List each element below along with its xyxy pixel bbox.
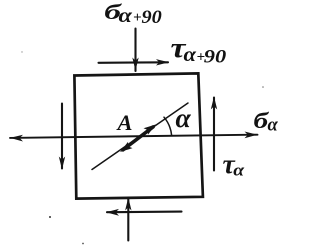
square element [74, 73, 203, 198]
svg-text:90: 90 [142, 6, 162, 27]
arrowhead sigma bottom up [125, 198, 131, 211]
label sigma alpha [254, 108, 279, 135]
arrowhead incline lower [120, 142, 133, 152]
arrowhead tau alpha+90 [156, 59, 169, 65]
speck noise [49, 216, 51, 218]
wire inclined section line [92, 103, 188, 170]
arrow tau alpha shaft (right, up) [213, 98, 215, 171]
arrow tau bottom shaft (left) [107, 211, 182, 214]
svg-text:+: + [133, 10, 142, 26]
arrowhead tau alpha up [211, 97, 217, 110]
svg-text:A: A [116, 110, 133, 135]
arrowhead sigma alpha+90 [132, 58, 138, 71]
arrow sigma alpha+90 shaft (top, down) [134, 29, 136, 72]
svg-text:α: α [184, 43, 198, 66]
arrowhead sigma left [10, 135, 23, 142]
arrow sigma bottom shaft (up) [127, 199, 129, 241]
arrowhead sigma alpha right [245, 132, 258, 139]
arc angle alpha [164, 117, 172, 135]
arrowhead incline upper [144, 124, 157, 134]
label sigma alpha+90 [104, 0, 162, 27]
wire horizontal axis [10, 135, 258, 138]
label tau alpha+90 [171, 32, 227, 67]
arrow tau alpha+90 shaft (top, right) [99, 61, 169, 64]
arrowhead tau left down [59, 157, 65, 170]
svg-text:α: α [268, 116, 279, 136]
arrowhead tau bottom left [106, 209, 119, 216]
svg-text:α: α [233, 161, 245, 180]
label tau alpha [223, 148, 245, 179]
wire inclined bold segment [123, 127, 153, 150]
arrow tau left shaft (down) [61, 104, 63, 169]
svg-text:α: α [176, 102, 192, 133]
svg-text:α: α [119, 4, 133, 27]
svg-text:90: 90 [204, 45, 227, 67]
